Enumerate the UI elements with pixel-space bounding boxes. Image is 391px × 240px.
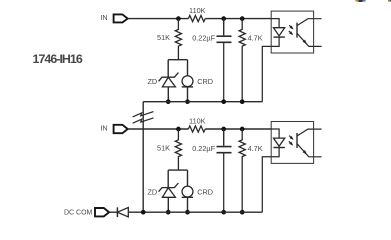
CRD channel 2 upper lead: [187, 170, 189, 186]
opto U1 light arrow 1: [289, 25, 292, 28]
junction 4.7K2 on rail: [240, 210, 245, 215]
svg-text:0.22µF: 0.22µF: [192, 33, 215, 42]
opto U2 collector wire: [297, 129, 322, 136]
opto U1 phototransistor base bar: [296, 23, 298, 38]
junction node A1: [176, 16, 181, 21]
junction node A2: [176, 127, 181, 132]
opto U2 light arrow 1: [289, 136, 292, 139]
wire break symbol line 1: [133, 112, 154, 117]
diode D1 bar: [116, 207, 118, 217]
wire 110K to opto U1: [205, 18, 271, 20]
cropped image fragment top edge right: [388, 0, 391, 2]
capacitor 0.22uF channel 1 top lead: [223, 19, 225, 36]
wire break symbol line 2: [133, 118, 154, 123]
junction cap2 on rail: [221, 210, 226, 215]
zener ZD channel 2 lead: [167, 170, 169, 187]
opto U1 collector wire: [297, 19, 322, 26]
bus wire channel 1 return: [143, 101, 262, 103]
opto U2 phototransistor base bar: [296, 133, 298, 148]
resistor 51K channel 1: [175, 19, 181, 60]
capacitor 0.22uF channel 2 bottom lead: [223, 154, 225, 213]
diode D1 triangle: [117, 208, 128, 217]
CRD channel 1 upper lead: [187, 60, 189, 76]
terminal IN channel 1: [114, 14, 128, 22]
cropped image fragment top edge left: [356, 0, 366, 2]
zener ZD channel 2 triangle: [162, 188, 175, 198]
zener ZD channel 2 lower lead: [167, 197, 169, 212]
CRD channel 1 circle: [182, 76, 193, 87]
CRD channel 1 bar: [182, 86, 193, 88]
opto U1 LED cathode bar: [273, 36, 285, 38]
junction ZD2 on rail: [166, 210, 171, 215]
CRD channel 1 lower lead: [187, 87, 189, 102]
svg-text:CRD: CRD: [197, 188, 213, 197]
terminal IN channel 2: [114, 125, 128, 133]
CRD channel 2 circle: [182, 186, 193, 197]
zener ZD channel 1 triangle: [162, 77, 175, 87]
junction node C2 (4.7K): [240, 127, 245, 132]
resistor 4.7K channel 1: [239, 19, 245, 102]
svg-text:51K: 51K: [157, 144, 170, 153]
capacitor 0.22uF channel 2 plates: [217, 147, 232, 153]
capacitor 0.22uF channel 1 bottom lead: [223, 43, 225, 102]
capacitor 0.22uF channel 1 plates: [217, 36, 232, 42]
junction CRD2 on rail: [185, 210, 190, 215]
junction ZD1 on bus: [166, 99, 171, 104]
resistor 110K channel 2: [188, 126, 205, 132]
wire IN1 to node A1: [128, 18, 189, 20]
opto U2 LED triangle: [274, 138, 285, 146]
resistor 110K channel 1: [188, 16, 205, 22]
zener ZD channel 2 bar: [159, 183, 179, 192]
svg-text:4.7K: 4.7K: [248, 144, 263, 153]
opto-coupler U1 box: [271, 11, 313, 53]
wire 110K to opto U2: [205, 128, 271, 130]
terminal DC COM: [95, 208, 109, 216]
svg-text:1746-IH16: 1746-IH16: [33, 52, 83, 66]
left return bus vertical: [142, 102, 144, 213]
svg-text:110K: 110K: [189, 117, 206, 126]
opto U1 emitter wire: [297, 33, 322, 46]
svg-text:ZD: ZD: [147, 77, 157, 86]
opto-coupler U2 box: [271, 122, 313, 164]
junction node B2 (cap): [221, 127, 226, 132]
opto U1 light arrow 2: [289, 31, 292, 34]
wire DC COM to diode: [109, 211, 117, 213]
junction CRD1 on bus: [185, 99, 190, 104]
svg-text:0.22µF: 0.22µF: [192, 144, 215, 153]
junction node C1 (4.7K): [240, 16, 245, 21]
opto U1 LED anode feed: [271, 19, 279, 28]
junction node B1 (cap): [221, 16, 226, 21]
resistor 4.7K channel 2: [239, 129, 245, 212]
svg-text:DC COM: DC COM: [64, 210, 93, 217]
opto U2 LED anode feed: [271, 129, 279, 138]
wire 51K to ZD/CRD header channel 2: [168, 169, 187, 171]
svg-text:51K: 51K: [157, 33, 170, 42]
svg-text:110K: 110K: [189, 6, 206, 15]
opto U2 emitter arrowhead: [303, 150, 309, 156]
DC COM rail: [128, 211, 262, 213]
junction cap1 on bus1: [221, 99, 226, 104]
capacitor 0.22uF channel 2 top lead: [223, 129, 225, 146]
CRD channel 2 lower lead: [187, 197, 189, 212]
zener ZD channel 1 lead: [167, 60, 169, 77]
opto U2 emitter wire: [297, 144, 322, 157]
junction left bus on rail: [141, 210, 146, 215]
opto U1 emitter arrowhead: [303, 40, 309, 46]
svg-text:IN: IN: [100, 13, 107, 22]
opto U1 LED triangle: [274, 28, 285, 36]
zener ZD channel 1 bar: [159, 73, 179, 82]
wire IN2 to node A2: [128, 128, 189, 130]
wire opto U1 cathode return: [262, 37, 279, 102]
wire opto U2 cathode return: [262, 148, 279, 213]
svg-text:4.7K: 4.7K: [248, 33, 263, 42]
opto U2 light arrow 2: [289, 141, 292, 144]
svg-text:ZD: ZD: [147, 187, 157, 196]
wire 51K to ZD/CRD header channel 1: [168, 59, 187, 61]
CRD channel 2 bar: [182, 196, 193, 198]
opto U2 LED cathode bar: [273, 147, 285, 149]
junction 4.7K1 on bus1: [240, 99, 245, 104]
resistor 51K channel 2: [175, 129, 181, 170]
svg-text:CRD: CRD: [197, 77, 213, 86]
zener ZD channel 1 lower lead: [167, 87, 169, 102]
svg-text:IN: IN: [100, 123, 107, 132]
